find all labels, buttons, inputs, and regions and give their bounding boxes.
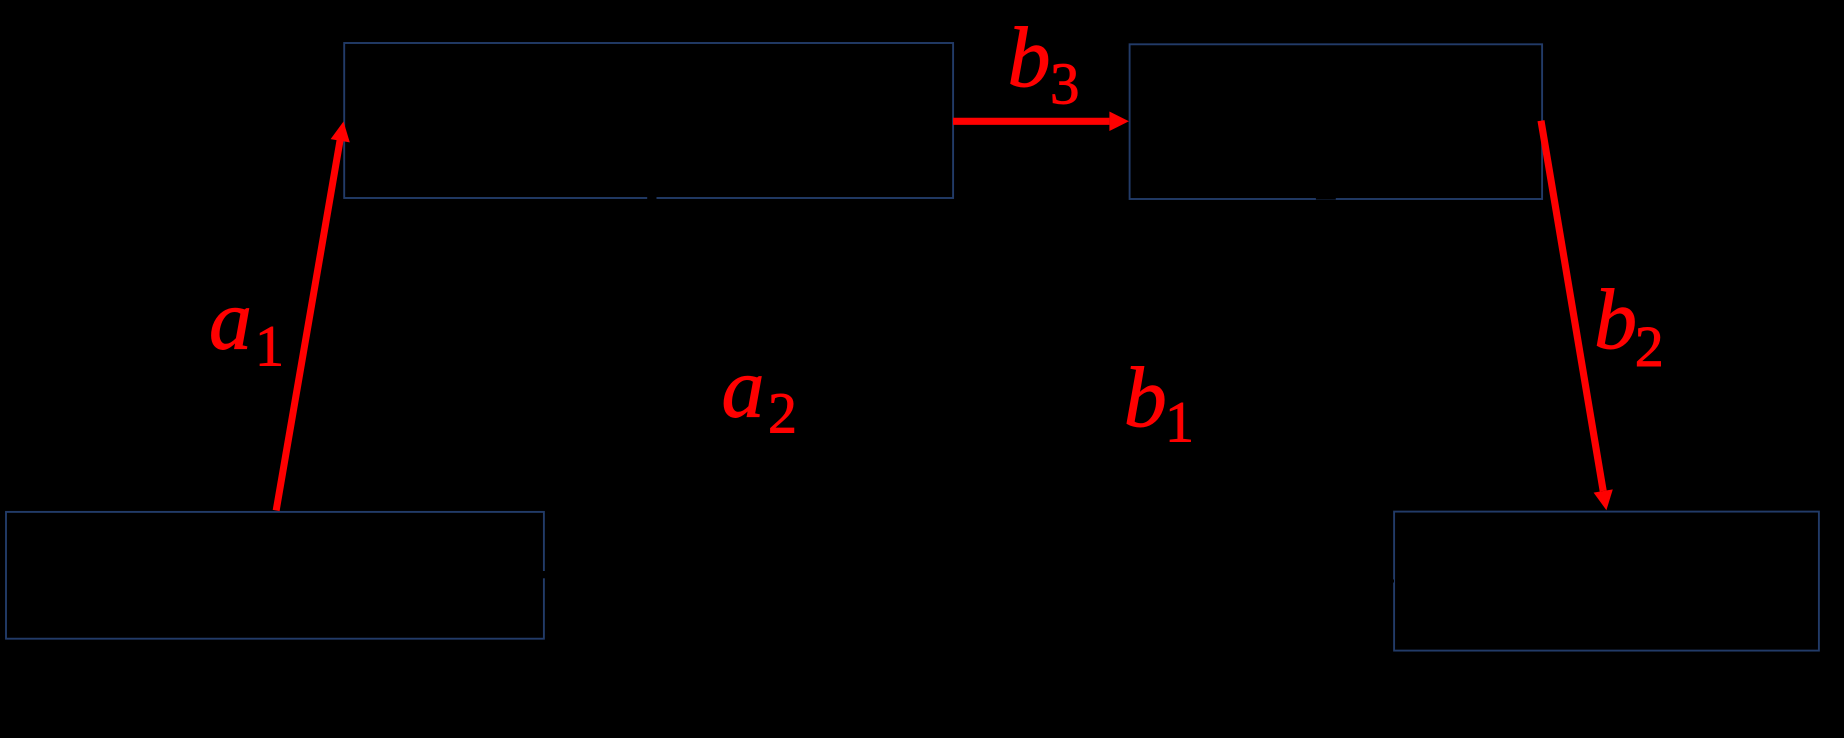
svg-text:b: b: [1124, 349, 1167, 445]
label b1: [1124, 349, 1194, 454]
notch on box bottom-right left border (head of hidden arrow b1): [1392, 580, 1394, 583]
notch on box bottom-left right border (tail of hidden arrow a2): [543, 571, 546, 578]
label b2: [1594, 271, 1664, 379]
box top-right: [1130, 44, 1543, 199]
svg-text:b: b: [1008, 9, 1051, 105]
label a2: [722, 339, 798, 445]
notch on box top-left bottom border (head of hidden arrow a2): [647, 194, 656, 200]
svg-text:2: 2: [768, 381, 797, 446]
svg-text:3: 3: [1050, 50, 1080, 116]
box bottom-left: [6, 512, 544, 639]
arrow b3 (red, top-left box to top-right box): [953, 112, 1129, 132]
box bottom-right: [1394, 512, 1819, 651]
svg-text:a: a: [209, 271, 252, 367]
label a1: [209, 271, 284, 378]
box top-left: [344, 43, 953, 198]
notch on box top-right bottom border (head of hidden arrow b1): [1316, 193, 1336, 200]
label b3: [1008, 9, 1080, 116]
arrow a1 (red, bottom-left box up to top-left box): [273, 122, 350, 512]
svg-text:a: a: [722, 339, 765, 435]
svg-text:2: 2: [1635, 314, 1664, 379]
arrow b2 (red, top-right box down to bottom-right box): [1538, 120, 1613, 510]
svg-text:1: 1: [1165, 390, 1194, 455]
svg-text:b: b: [1594, 271, 1637, 367]
svg-text:1: 1: [255, 313, 284, 378]
